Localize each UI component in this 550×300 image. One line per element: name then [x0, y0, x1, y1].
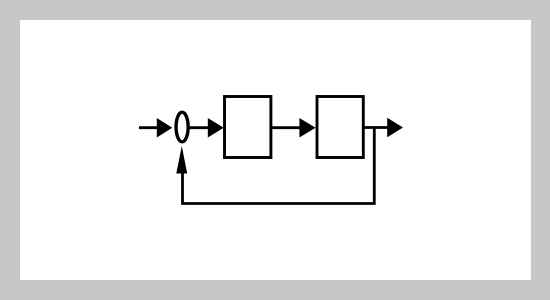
block G1 (first box): [225, 97, 271, 158]
wire: feedback path (tap down, across bottom, up to summing junction): [183, 128, 375, 204]
wire: summing junction to block G1: [190, 126, 209, 129]
summing junction (ellipse): [176, 112, 188, 142]
wire: input line R(s): [139, 126, 159, 129]
arrowhead: into block G2: [299, 118, 315, 138]
arrowhead: output: [387, 118, 403, 138]
arrowhead: into block G1: [208, 118, 224, 138]
arrowhead: input into summing junction: [157, 118, 173, 138]
wire: output line: [365, 126, 389, 129]
block G2 (second box): [317, 97, 363, 158]
arrowhead: feedback up into summing junction: [176, 146, 187, 174]
wire: block G1 to block G2: [272, 126, 301, 129]
